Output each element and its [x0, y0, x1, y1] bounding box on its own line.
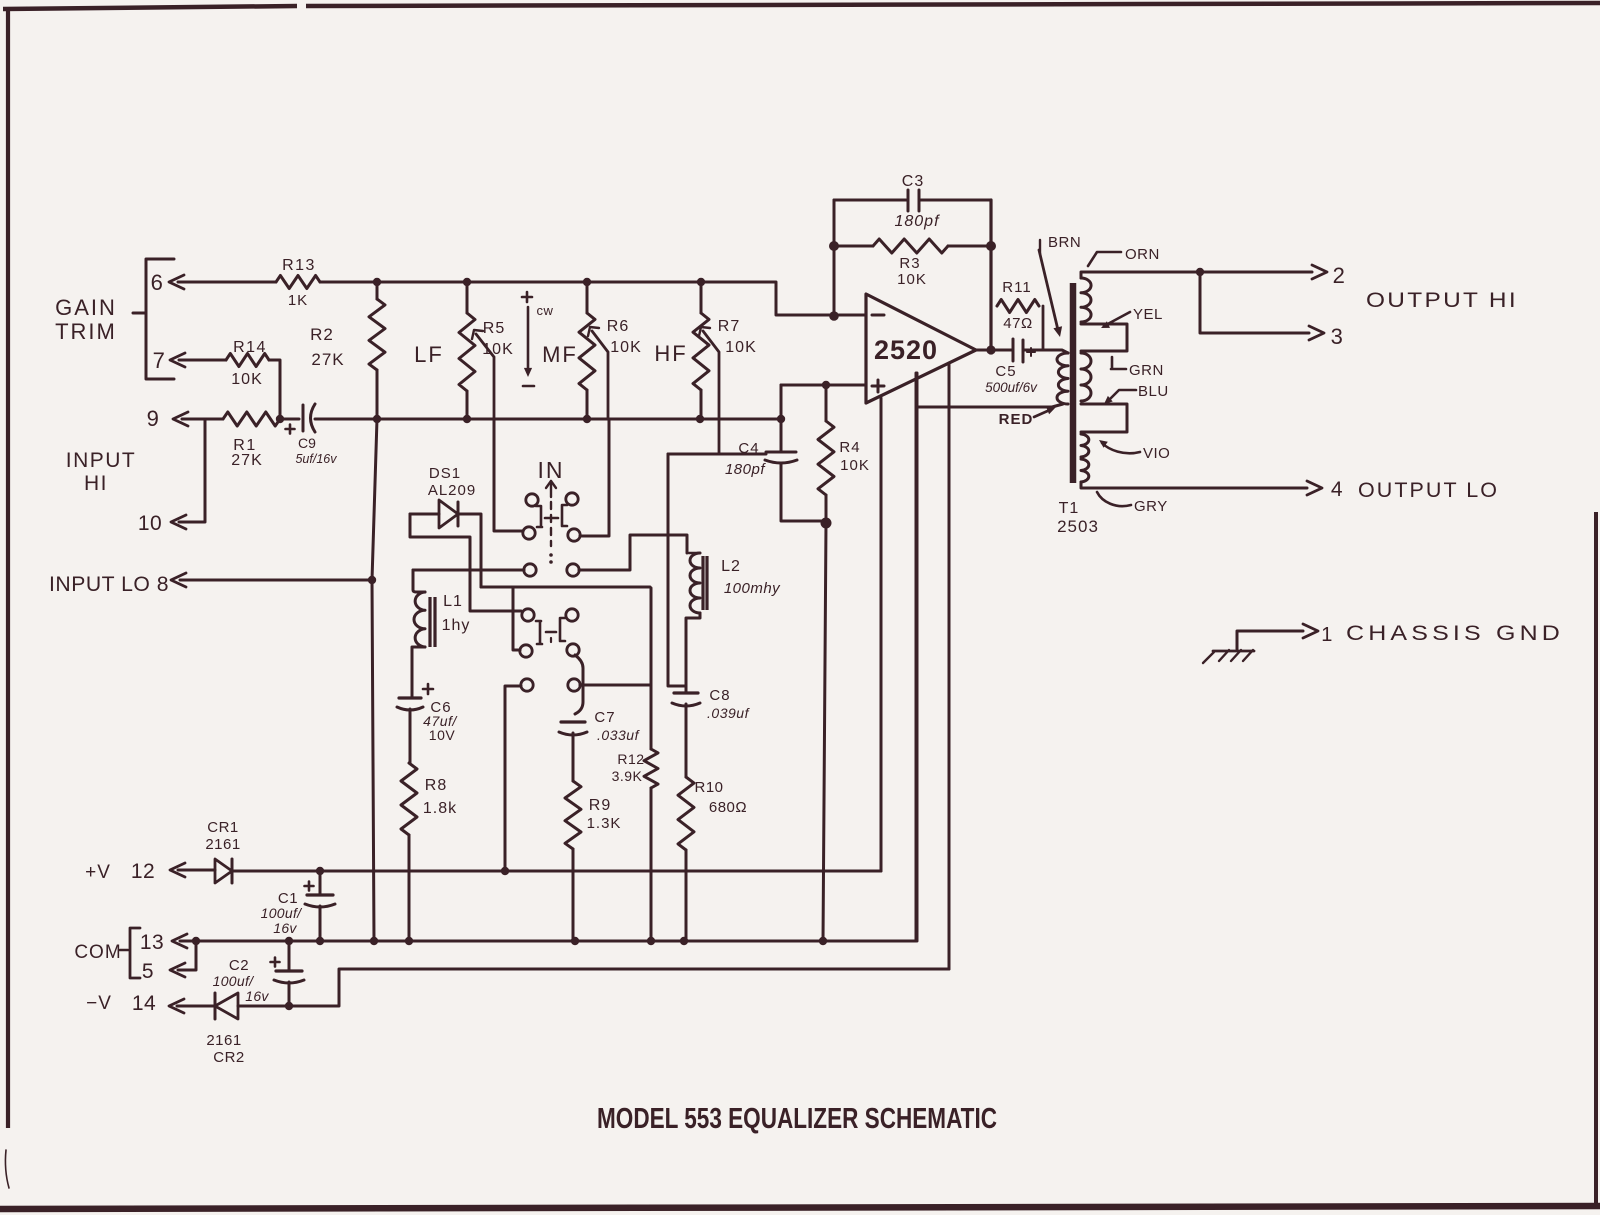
- svg-text:13: 13: [140, 931, 164, 954]
- svg-text:16v: 16v: [245, 988, 269, 1004]
- junction R3 right: [986, 241, 996, 251]
- svg-text:AL209: AL209: [428, 482, 476, 499]
- wire RED primary return: [917, 404, 1063, 407]
- svg-text:10K: 10K: [610, 339, 641, 356]
- svg-text:100uf/: 100uf/: [213, 973, 256, 989]
- wire pin5 riser: [178, 941, 196, 970]
- transformer T1 core: [1070, 283, 1077, 483]
- wire -V feed to op-amp: [948, 363, 951, 969]
- svg-text:CR2: CR2: [213, 1049, 245, 1066]
- wire S2 bottom-right to C7: [575, 655, 583, 714]
- junction input bus R6: [583, 415, 591, 423]
- wire DS1 anode loop: [410, 514, 521, 611]
- svg-text:R5: R5: [483, 320, 505, 337]
- label T1 2503: [1057, 500, 1099, 536]
- junction output R11: [986, 345, 995, 354]
- capacitor C1: [261, 871, 335, 941]
- svg-text:680Ω: 680Ω: [709, 799, 747, 816]
- label CHASSIS GND: [1346, 622, 1564, 645]
- junction input lo R2 line: [368, 576, 376, 584]
- switch S2 pole bars: [536, 618, 565, 645]
- junction top bus R2: [373, 278, 381, 286]
- svg-text:R8: R8: [425, 777, 447, 794]
- wire L1 to C6: [412, 647, 425, 698]
- svg-text:9: 9: [147, 406, 160, 431]
- wire S1 lower to L2: [579, 535, 687, 570]
- svg-text:10K: 10K: [231, 371, 262, 388]
- svg-text:.039uf: .039uf: [707, 705, 751, 721]
- op-amp U1 2520: [866, 294, 976, 403]
- junction top bus R5: [463, 278, 471, 286]
- pin 2: [1333, 263, 1346, 288]
- svg-text:180pf: 180pf: [894, 213, 940, 230]
- wire secondary tap BLU step: [1081, 404, 1127, 432]
- svg-text:OUTPUT HI: OUTPUT HI: [1366, 289, 1518, 312]
- wire pin14 to CR2: [177, 1005, 215, 1008]
- junction R1 R14: [276, 415, 284, 423]
- label GAIN TRIM: [55, 295, 117, 344]
- svg-text:10K: 10K: [840, 457, 870, 474]
- svg-text:TRIM: TRIM: [55, 319, 117, 344]
- svg-text:HI: HI: [84, 472, 108, 495]
- junction input bus R5: [463, 415, 471, 423]
- wire top bus: [320, 282, 866, 315]
- bracket gain trim: [133, 259, 174, 379]
- junction plus input R4: [822, 381, 830, 389]
- svg-text:C8: C8: [709, 687, 730, 704]
- svg-text:6: 6: [151, 270, 164, 295]
- junction R4 C4 bottom: [821, 518, 832, 529]
- wire R2 to COM rail: [372, 370, 377, 941]
- pin 1: [1321, 624, 1333, 646]
- svg-text:3: 3: [1331, 324, 1344, 349]
- svg-text:3.9K: 3.9K: [612, 768, 643, 784]
- inductor L1: [413, 570, 470, 647]
- transformer T1 secondary winding 3: [1081, 434, 1089, 457]
- transformer T1 primary winding: [1023, 350, 1068, 404]
- junction +V S2 feed: [501, 867, 509, 875]
- wire R4 to COM rail: [823, 523, 826, 941]
- wire C3 loop left: [833, 200, 836, 316]
- svg-text:+V: +V: [85, 862, 111, 883]
- svg-text:2520: 2520: [874, 335, 938, 365]
- svg-text:R6: R6: [607, 318, 629, 335]
- wire C7 to R9: [572, 733, 575, 781]
- svg-text:1.3K: 1.3K: [587, 815, 622, 832]
- border frame top edge: [3, 3, 1600, 9]
- svg-text:R4: R4: [839, 439, 860, 456]
- svg-text:2161: 2161: [205, 836, 240, 853]
- svg-text:100uf/: 100uf/: [261, 905, 304, 921]
- resistor R10: [678, 777, 747, 850]
- junction C4 input bus: [777, 415, 785, 423]
- transformer T1 secondary winding 2: [1081, 353, 1091, 401]
- svg-text:GAIN: GAIN: [55, 295, 117, 320]
- label BLU: [1104, 383, 1169, 404]
- junction +V C1 top: [316, 867, 324, 875]
- bracket com pins: [130, 928, 140, 978]
- junction COM R2 line: [370, 937, 378, 945]
- wire +V feed to op-amp: [880, 398, 883, 871]
- pin 14: [132, 992, 184, 1015]
- wire S2 lower-right to R12: [580, 684, 650, 687]
- wire -V rail: [238, 969, 949, 1006]
- wire MF wiper to S1: [580, 419, 609, 536]
- transformer T1 secondary winding 1: [1081, 278, 1091, 322]
- pin 13: [140, 931, 187, 954]
- svg-text:L2: L2: [721, 558, 741, 575]
- switch S1 lower contacts: [524, 564, 579, 576]
- junction COM pin5: [192, 937, 200, 945]
- junction input bus R7: [696, 415, 704, 423]
- wire DS1 cathode drop: [458, 514, 481, 587]
- pin 7: [153, 348, 185, 373]
- capacitor C4: [725, 440, 797, 478]
- resistor R8: [401, 763, 457, 835]
- wire pin9 to R1: [182, 418, 223, 421]
- junction COM R9: [571, 937, 579, 945]
- svg-text:R7: R7: [718, 318, 740, 335]
- junction input bus R2: [373, 415, 381, 423]
- junction minus input: [829, 311, 839, 321]
- wire chassis gnd: [1237, 624, 1318, 649]
- switch S2 lower contacts: [521, 679, 580, 691]
- svg-text:RED: RED: [999, 411, 1034, 428]
- svg-text:IN: IN: [538, 457, 565, 483]
- svg-text:T1: T1: [1059, 500, 1080, 517]
- svg-text:12: 12: [131, 860, 155, 883]
- svg-text:INPUT: INPUT: [66, 449, 137, 472]
- label ORN: [1088, 246, 1160, 266]
- svg-text:1: 1: [1321, 624, 1333, 646]
- resistor R3: [836, 239, 991, 288]
- wire pin6 to R13: [178, 281, 276, 284]
- svg-text:2161: 2161: [206, 1032, 241, 1049]
- junction COM R4 line: [819, 937, 827, 945]
- switch S1 contact circles: [523, 493, 580, 541]
- svg-text:16v: 16v: [273, 920, 297, 936]
- wire pin10 riser: [179, 419, 205, 522]
- svg-text:27K: 27K: [311, 350, 344, 369]
- capacitor C8: [672, 687, 751, 721]
- wire output 2: [1081, 265, 1327, 279]
- svg-text:180pf: 180pf: [725, 461, 766, 478]
- pin 10: [138, 512, 186, 535]
- svg-text:GRN: GRN: [1129, 362, 1164, 379]
- wire C4 bottom: [781, 463, 826, 521]
- svg-text:R14: R14: [233, 339, 267, 356]
- junction top bus R6: [583, 278, 591, 286]
- svg-text:ORN: ORN: [1125, 246, 1160, 263]
- wire S2 lower-left to +V: [505, 686, 521, 871]
- transformer T1 secondary winding 4: [1081, 459, 1089, 482]
- resistor R4: [818, 385, 870, 523]
- svg-text:1K: 1K: [288, 292, 308, 309]
- wire C6 to R8: [409, 709, 412, 763]
- cw polarity arrow: [522, 292, 554, 386]
- svg-text:5: 5: [142, 960, 154, 983]
- svg-text:cw: cw: [537, 303, 554, 318]
- wire LF wiper to S1: [494, 419, 523, 531]
- svg-text:10K: 10K: [725, 339, 756, 356]
- capacitor C3: [834, 173, 991, 230]
- resistor R13: [276, 257, 320, 309]
- pin 8 arrow: [171, 573, 186, 587]
- wire input lo: [180, 579, 372, 582]
- svg-text:7: 7: [153, 348, 166, 373]
- potentiometer R6: [579, 282, 642, 419]
- svg-text:BRN: BRN: [1048, 234, 1081, 251]
- label INPUT LO: [49, 573, 169, 596]
- svg-text:10K: 10K: [897, 271, 927, 288]
- svg-text:HF: HF: [654, 341, 687, 366]
- svg-text:CHASSIS GND: CHASSIS GND: [1346, 622, 1564, 645]
- svg-text:INPUT LO 8: INPUT LO 8: [49, 573, 169, 596]
- svg-text:2: 2: [1333, 263, 1346, 288]
- pin 3: [1331, 324, 1344, 349]
- svg-text:VIO: VIO: [1143, 445, 1170, 462]
- svg-text:C7: C7: [594, 709, 615, 726]
- title MODEL 553 EQUALIZER SCHEMATIC: [597, 1103, 997, 1135]
- wire R9 to COM rail: [572, 849, 575, 941]
- svg-text:10: 10: [138, 512, 162, 535]
- label +V: [85, 862, 111, 883]
- svg-text:2503: 2503: [1057, 517, 1099, 536]
- svg-text:47Ω: 47Ω: [1003, 315, 1032, 332]
- wire R10 to COM rail: [685, 850, 688, 941]
- label DS1 AL209: [428, 465, 476, 499]
- resistor R12: [612, 588, 658, 788]
- junction R3 left: [829, 241, 839, 251]
- label BRN: [1039, 234, 1081, 337]
- svg-text:GRY: GRY: [1134, 498, 1168, 515]
- wire COM feed to op-amp: [916, 373, 919, 941]
- label HF: [654, 341, 687, 366]
- capacitor C6: [397, 684, 458, 743]
- svg-text:CR1: CR1: [207, 819, 239, 836]
- junction COM R10: [680, 937, 688, 945]
- label GRN: [1111, 357, 1164, 379]
- wire pin7 to R14: [179, 359, 226, 362]
- wire input bus: [330, 418, 781, 421]
- pin 12: [131, 860, 185, 883]
- diode CR2: [206, 993, 244, 1066]
- wire pin12 to CR1: [178, 869, 215, 872]
- junction output 2/3: [1196, 268, 1204, 276]
- label INPUT HI: [66, 449, 137, 495]
- svg-text:C9: C9: [298, 435, 316, 451]
- junction top bus R7: [697, 278, 705, 286]
- svg-text:R13: R13: [282, 257, 316, 274]
- wire R12 to COM rail: [650, 788, 653, 941]
- svg-text:R9: R9: [589, 797, 611, 814]
- svg-text:R12: R12: [617, 751, 644, 767]
- wire +V rail: [232, 870, 881, 873]
- wire L1 to S1 lower: [413, 569, 524, 572]
- switch S1 actuator: [546, 481, 556, 564]
- resistor R11: [991, 279, 1043, 350]
- pin 6: [151, 270, 184, 295]
- svg-text:1hy: 1hy: [442, 617, 471, 634]
- label -V: [86, 993, 112, 1014]
- wiper HF: [699, 327, 719, 454]
- wiper MF: [588, 327, 608, 419]
- svg-text:MF: MF: [542, 342, 578, 367]
- resistor R1: [223, 412, 280, 469]
- border frame left edge: [5, 7, 9, 1188]
- wire L2 to C8: [686, 613, 700, 693]
- svg-text:10V: 10V: [429, 727, 456, 743]
- pin 4: [1331, 478, 1343, 501]
- switch S1 pole bars: [536, 505, 567, 527]
- ground chassis symbol: [1203, 650, 1254, 663]
- svg-text:C2: C2: [229, 957, 249, 974]
- potentiometer R5: [459, 282, 514, 419]
- potentiometer R7: [693, 282, 757, 419]
- svg-text:R10: R10: [694, 779, 723, 796]
- svg-text:500uf/6v: 500uf/6v: [985, 380, 1038, 395]
- junction -V C2: [285, 1002, 293, 1010]
- svg-text:MODEL 553 EQUALIZER SCHEMATIC: MODEL 553 EQUALIZER SCHEMATIC: [597, 1103, 997, 1135]
- svg-text:L1: L1: [443, 593, 463, 610]
- junction COM R8: [405, 937, 413, 945]
- svg-text:1.8k: 1.8k: [423, 800, 457, 817]
- wire plus input: [781, 384, 866, 387]
- svg-text:YEL: YEL: [1133, 306, 1163, 323]
- wire COM rail: [180, 373, 916, 941]
- capacitor C5: [985, 339, 1038, 395]
- svg-text:100mhy: 100mhy: [724, 580, 781, 597]
- border frame bottom edge: [0, 1206, 1600, 1209]
- label LF: [414, 342, 444, 367]
- capacitor C7: [559, 709, 641, 743]
- inductor L2: [689, 553, 781, 613]
- svg-text:R2: R2: [310, 325, 334, 344]
- svg-text:C5: C5: [995, 363, 1016, 380]
- wire output 4: [1081, 481, 1322, 495]
- label VIO: [1099, 440, 1170, 462]
- label RED: [999, 407, 1056, 428]
- label MF: [542, 342, 578, 367]
- svg-text:R3: R3: [899, 255, 920, 272]
- svg-text:COM: COM: [74, 942, 121, 963]
- wire R8 to COM rail: [408, 835, 411, 941]
- wire op-amp output: [976, 349, 1013, 352]
- wire S2 left tie: [513, 587, 520, 650]
- wire DS1 line to R12: [481, 586, 650, 589]
- svg-text:LF: LF: [414, 342, 444, 367]
- capacitor C2: [213, 941, 304, 1006]
- svg-text:R11: R11: [1002, 279, 1031, 296]
- diode DS1: [410, 500, 458, 528]
- svg-text:−V: −V: [86, 993, 112, 1014]
- svg-text:OUTPUT LO: OUTPUT LO: [1358, 479, 1499, 502]
- pin 5: [142, 960, 185, 983]
- resistor R9: [565, 781, 621, 849]
- svg-text:DS1: DS1: [429, 465, 461, 482]
- svg-text:14: 14: [132, 992, 156, 1015]
- switch S2 contact circles: [520, 609, 579, 657]
- wire output 3: [1200, 272, 1324, 340]
- wiper LF: [472, 330, 494, 419]
- svg-text:5uf/16v: 5uf/16v: [295, 452, 337, 466]
- wire secondary tap YEL step: [1081, 324, 1127, 351]
- label YEL: [1101, 306, 1163, 328]
- junction COM R12: [647, 937, 655, 945]
- svg-text:27K: 27K: [231, 452, 262, 469]
- wire C3 loop right: [989, 200, 992, 350]
- label IN: [538, 457, 565, 483]
- resistor R14: [226, 339, 269, 388]
- label COM: [74, 942, 128, 963]
- junction COM C1: [316, 937, 324, 945]
- wire C8 node to C4 node: [668, 454, 766, 686]
- resistor R2: [310, 282, 385, 370]
- border frame right edge: [1594, 512, 1598, 1204]
- svg-text:4: 4: [1331, 478, 1343, 501]
- pin 9: [147, 406, 188, 431]
- label OUTPUT HI: [1366, 289, 1518, 312]
- wire C8 to R10: [685, 704, 688, 777]
- label OUTPUT LO: [1358, 479, 1499, 502]
- junction COM C2: [285, 937, 293, 945]
- svg-text:BLU: BLU: [1138, 383, 1169, 400]
- svg-text:C3: C3: [902, 173, 924, 190]
- capacitor C9: [280, 404, 337, 466]
- wire R14 down to input node: [269, 360, 280, 419]
- wire C4 branch: [780, 385, 783, 452]
- diode CR1: [205, 819, 240, 883]
- svg-text:.033uf: .033uf: [597, 727, 641, 743]
- label GRY: [1097, 492, 1168, 515]
